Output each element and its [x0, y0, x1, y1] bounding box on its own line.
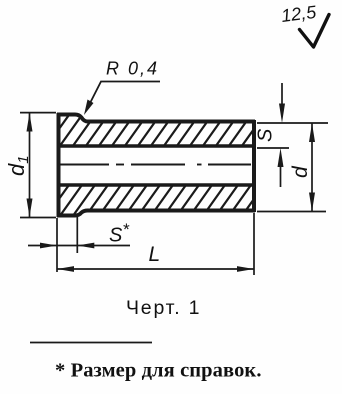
hatching bottom wall	[31, 180, 281, 220]
S* left arrow (pointing right)	[40, 243, 57, 249]
svg-text:* Размер для справок.: * Размер для справок.	[55, 360, 262, 382]
svg-text:12,5: 12,5	[280, 2, 318, 26]
d arrow down	[309, 193, 315, 212]
roughness symbol (check mark)	[300, 15, 330, 48]
S arrow down (above line)	[279, 104, 285, 124]
part outline (flanged bushing section)	[57, 113, 255, 217]
centerline	[59, 164, 251, 166]
d1 arrow up	[27, 113, 33, 132]
dimension S: extension lines	[257, 83, 328, 187]
svg-text:S: S	[255, 128, 277, 142]
L right extension (part edge extended)	[253, 213, 255, 275]
L left arrow	[57, 266, 74, 272]
svg-text:d: d	[289, 165, 312, 178]
leader line for R0,4	[87, 82, 161, 111]
d arrow up	[309, 123, 315, 142]
dimension L: dimension line	[57, 268, 254, 270]
S upper arrow tail	[281, 83, 283, 106]
S lower arrow tail	[280, 164, 282, 187]
bore top line	[57, 144, 255, 148]
svg-text:d1: d1	[4, 155, 32, 176]
svg-text:S*: S*	[109, 220, 130, 247]
dimension S*: extension lines	[28, 217, 130, 272]
bore bottom line	[57, 183, 255, 187]
dimension d1: extension lines	[20, 113, 56, 218]
svg-text:R 0,4: R 0,4	[106, 59, 159, 79]
svg-text:Черт. 1: Черт. 1	[126, 297, 201, 319]
dimension d1: dimension line	[29, 113, 31, 217]
hatching top wall	[31, 110, 281, 150]
leader arrowhead	[84, 100, 94, 116]
svg-text:L: L	[149, 243, 161, 266]
L right arrow	[237, 266, 254, 272]
S* dimension line with outside tails	[28, 245, 77, 247]
d dimension line	[311, 123, 313, 212]
footnote rule	[30, 342, 152, 344]
S arrow up (below bore line)	[278, 148, 284, 167]
dimension d: extension line bottom	[257, 123, 326, 212]
d1 arrow down	[27, 199, 33, 218]
S* right arrow (pointing left)	[77, 243, 94, 249]
